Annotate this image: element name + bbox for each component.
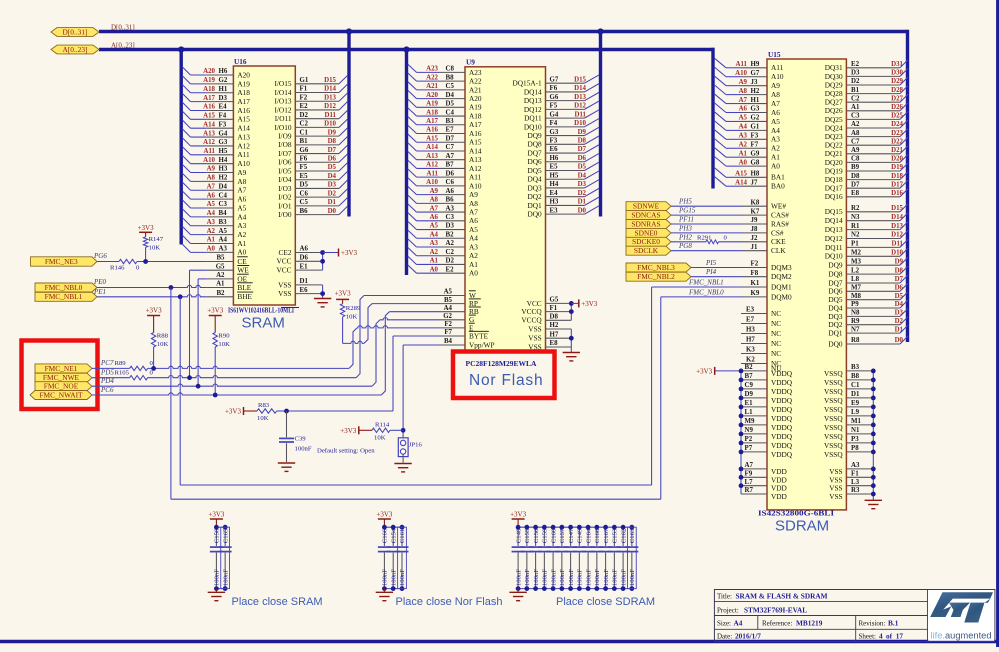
svg-text:D5: D5 (446, 101, 455, 108)
svg-text:B7: B7 (446, 162, 455, 169)
svg-text:C153: C153 (612, 528, 619, 543)
svg-text:Place close SDRAM: Place close SDRAM (556, 596, 655, 608)
svg-text:F5: F5 (300, 164, 308, 171)
svg-text:CKE: CKE (771, 237, 786, 246)
part number IS61WV102416BLL-10MLI (228, 306, 299, 315)
svg-text:A3: A3 (469, 242, 478, 251)
svg-text:G2: G2 (219, 77, 228, 84)
svg-text:C166: C166 (382, 528, 389, 543)
svg-text:R1: R1 (851, 223, 860, 230)
svg-text:D12: D12 (324, 103, 336, 110)
svg-text:100nF: 100nF (594, 569, 601, 586)
svg-text:A8: A8 (469, 199, 478, 208)
U15 left address pins A11..A0 (714, 58, 784, 171)
svg-text:P2: P2 (745, 436, 753, 443)
svg-text:A15: A15 (237, 115, 250, 124)
svg-text:A7: A7 (430, 205, 439, 212)
svg-text:DQ16: DQ16 (825, 192, 843, 201)
capacitor bank Nor Flash: C166,C154,C161 (378, 525, 409, 591)
svg-text:DQ3: DQ3 (527, 183, 542, 192)
svg-text:A0: A0 (739, 159, 748, 166)
svg-text:DQ14: DQ14 (825, 216, 843, 225)
svg-text:N7: N7 (851, 326, 860, 333)
svg-text:C1: C1 (851, 382, 860, 389)
svg-text:DQ0: DQ0 (527, 210, 542, 219)
svg-text:D8: D8 (550, 314, 559, 321)
svg-text:VDDQ: VDDQ (771, 387, 793, 396)
svg-text:A9: A9 (207, 166, 216, 173)
svg-text:A1: A1 (771, 153, 780, 162)
wire SDNWE to U15 (671, 205, 741, 207)
svg-text:C2: C2 (300, 121, 309, 128)
jumper JP16 (398, 438, 422, 463)
svg-text:100nF: 100nF (390, 569, 397, 586)
ground at SDRAM cap bank (509, 589, 526, 601)
U9 VSS pins with ground (528, 322, 573, 352)
svg-text:B4: B4 (219, 210, 228, 217)
U16 control pin stubs CE WE OE BLE BHE (207, 255, 253, 302)
svg-text:A7: A7 (237, 186, 246, 195)
svg-text:D3: D3 (328, 182, 337, 189)
svg-text:A14: A14 (735, 179, 747, 186)
svg-text:A21: A21 (469, 85, 482, 94)
svg-text:P7: P7 (745, 445, 753, 452)
svg-text:D3: D3 (578, 181, 587, 188)
svg-text:R289: R289 (346, 305, 361, 312)
title block table (714, 590, 995, 642)
svg-text:A23: A23 (469, 68, 482, 77)
bus vertical D to U9 (599, 32, 602, 217)
svg-text:A5: A5 (739, 115, 748, 122)
ground at U9 VSS (563, 353, 580, 361)
svg-text:D23: D23 (891, 130, 903, 137)
svg-text:C164: C164 (585, 528, 592, 543)
svg-text:A4: A4 (469, 234, 478, 243)
svg-text:FMC_NOE: FMC_NOE (44, 382, 79, 391)
svg-text:R147: R147 (149, 236, 164, 243)
svg-text:A8: A8 (237, 177, 246, 186)
svg-text:I/O1: I/O1 (278, 201, 292, 210)
svg-text:A7: A7 (207, 183, 216, 190)
svg-text:B2: B2 (446, 231, 455, 238)
svg-text:D1: D1 (300, 278, 309, 285)
svg-text:E8: E8 (550, 340, 559, 347)
svg-text:10K: 10K (346, 313, 358, 320)
svg-text:A5: A5 (469, 225, 478, 234)
svg-text:VDDQ: VDDQ (771, 423, 793, 432)
resistor R90 10K (213, 333, 230, 396)
svg-text:D0: D0 (328, 208, 337, 215)
svg-text:R88: R88 (157, 333, 169, 340)
svg-text:DQ7: DQ7 (527, 148, 542, 157)
wire SDNRAS to U15 (671, 223, 741, 225)
svg-text:L2: L2 (851, 267, 860, 274)
svg-text:E1: E1 (745, 400, 754, 407)
ground at U15 VSS (865, 500, 882, 508)
svg-text:C9: C9 (745, 382, 754, 389)
svg-text:IS61WV102416BLL-10MLI: IS61WV102416BLL-10MLI (228, 306, 294, 315)
wire FMC_NWE to U9 W (148, 296, 440, 381)
wire U16 WE vertical to FMC_NWE (190, 270, 207, 378)
svg-text:G7: G7 (751, 70, 760, 77)
svg-text:D4: D4 (219, 183, 228, 190)
svg-text:G8: G8 (751, 159, 760, 166)
svg-text:SDNRAS: SDNRAS (631, 219, 660, 228)
svg-text:D25: D25 (891, 113, 903, 120)
svg-text:100nF: 100nF (382, 569, 389, 586)
svg-text:D1: D1 (328, 199, 337, 206)
svg-text:VDDQ: VDDQ (771, 414, 793, 423)
svg-text:C154: C154 (390, 528, 397, 543)
resistor R88 10K (151, 333, 168, 369)
svg-text:DQM0: DQM0 (771, 292, 792, 301)
svg-text:FMC_NWAIT: FMC_NWAIT (39, 390, 83, 399)
U15 VDDQ/VDD pins (739, 364, 793, 501)
svg-text:PI5: PI5 (705, 259, 717, 267)
svg-text:A3: A3 (430, 240, 439, 247)
svg-text:C4: C4 (219, 192, 228, 199)
wire PE1 to U16 BHE (97, 294, 207, 299)
svg-text:A2: A2 (430, 249, 439, 256)
svg-text:+3V3: +3V3 (207, 306, 224, 314)
svg-text:A7: A7 (739, 97, 748, 104)
svg-text:A8: A8 (771, 90, 780, 99)
wire SDNE0 to U15 (671, 232, 741, 234)
svg-text:BHE: BHE (237, 292, 252, 301)
svg-text:D10: D10 (891, 250, 903, 257)
resistor R89 0 (92, 360, 154, 371)
svg-text:N1: N1 (851, 427, 860, 434)
svg-text:DQ8: DQ8 (828, 270, 843, 279)
svg-text:D17: D17 (891, 181, 903, 188)
svg-text:A9: A9 (237, 168, 246, 177)
svg-text:D3: D3 (851, 70, 860, 77)
svg-text:D2: D2 (446, 258, 455, 265)
svg-text:A6: A6 (237, 195, 246, 204)
svg-text:DQ14: DQ14 (524, 87, 542, 96)
svg-text:D1: D1 (578, 199, 587, 206)
svg-text:VDDQ: VDDQ (771, 405, 793, 414)
svg-text:C157: C157 (559, 528, 566, 543)
svg-text:R2: R2 (851, 205, 860, 212)
svg-text:F7: F7 (444, 329, 452, 336)
svg-text:D6: D6 (300, 255, 309, 262)
svg-text:100nF: 100nF (214, 569, 221, 586)
svg-text:+3V3: +3V3 (341, 249, 358, 257)
svg-text:D0: D0 (578, 207, 587, 214)
U15 right data pins DQ31..DQ16 (825, 60, 908, 201)
svg-text:A19: A19 (426, 101, 438, 108)
svg-text:A[0..23]: A[0..23] (62, 45, 87, 54)
svg-text:DQ13: DQ13 (524, 96, 542, 105)
svg-text:D7: D7 (895, 276, 904, 283)
svg-text:A7: A7 (745, 462, 754, 469)
svg-text:A4: A4 (237, 212, 246, 221)
svg-text:A20: A20 (203, 68, 215, 75)
svg-text:D7: D7 (446, 135, 455, 142)
svg-text:A17: A17 (469, 120, 482, 129)
svg-text:Revision:: Revision: (859, 620, 886, 628)
svg-text:D4: D4 (328, 173, 337, 180)
svg-text:N2: N2 (851, 232, 860, 239)
wire R146 to U16 CE (137, 259, 207, 264)
U15 BA1/BA0 pins A15 A14 (714, 167, 785, 190)
svg-text:+3V3: +3V3 (138, 224, 155, 232)
svg-text:NC: NC (771, 329, 781, 338)
svg-text:WE: WE (237, 266, 249, 275)
svg-text:D15: D15 (891, 205, 903, 212)
svg-text:D14: D14 (324, 86, 336, 93)
U9 right data pins DQ15A-1..DQ0 (513, 75, 599, 219)
wire U9 BYTE to R83 node (287, 336, 441, 411)
svg-text:C4: C4 (446, 109, 455, 116)
svg-text:F3: F3 (219, 121, 227, 128)
svg-text:DQ4: DQ4 (527, 175, 542, 184)
svg-text:+3V3: +3V3 (340, 427, 357, 435)
svg-text:DQ10: DQ10 (825, 252, 843, 261)
svg-text:BA1: BA1 (771, 173, 785, 182)
svg-text:B1: B1 (300, 138, 309, 145)
svg-text:VSSQ: VSSQ (824, 414, 843, 423)
svg-text:DQ5: DQ5 (527, 166, 542, 175)
svg-text:F2: F2 (300, 94, 308, 101)
U16 left address pins A20..A0 (wires+labels) (182, 67, 250, 257)
wire FMC_NBL2 to U15 DQM2 (691, 276, 741, 278)
svg-text:DQ6: DQ6 (527, 157, 542, 166)
bus vertical A to U9 (405, 50, 408, 276)
svg-text:H5: H5 (219, 148, 228, 155)
svg-text:A22: A22 (469, 77, 482, 86)
svg-text:I/O9: I/O9 (278, 132, 292, 141)
svg-text:D28: D28 (891, 87, 903, 94)
svg-text:A9: A9 (771, 81, 780, 90)
svg-text:M7: M7 (851, 285, 862, 292)
svg-text:H2: H2 (219, 175, 228, 182)
svg-text:100nF: 100nF (524, 569, 531, 586)
svg-text:H1: H1 (219, 86, 228, 93)
svg-text:H7: H7 (746, 337, 755, 344)
svg-text:F3: F3 (751, 133, 759, 140)
svg-text:+3V3: +3V3 (335, 289, 352, 297)
svg-text:A14: A14 (203, 121, 215, 128)
svg-text:PE0: PE0 (93, 278, 107, 286)
bus A[0..23] right vertical drop (U15) (711, 48, 714, 189)
svg-text:C159: C159 (542, 528, 549, 543)
port flag D[0..31] (51, 28, 99, 37)
svg-text:B3: B3 (851, 364, 860, 371)
svg-text:B5: B5 (216, 255, 225, 262)
norflash U9 body (465, 67, 546, 353)
svg-text:A11: A11 (736, 61, 748, 68)
svg-text:F2: F2 (444, 321, 452, 328)
svg-text:VSSQ: VSSQ (824, 369, 843, 378)
svg-text:D7: D7 (328, 147, 337, 154)
svg-text:DQ9: DQ9 (828, 261, 843, 270)
svg-text:10K: 10K (149, 244, 161, 251)
U15 right data pins DQ15..DQ8 (825, 204, 908, 279)
svg-text:C163: C163 (629, 528, 636, 543)
power +3V3 at U16 CE2 (339, 249, 358, 258)
svg-text:CAS#: CAS# (771, 211, 789, 220)
svg-text:100nF: 100nF (559, 569, 566, 586)
svg-text:A5: A5 (207, 201, 216, 208)
svg-text:SDCKE0: SDCKE0 (632, 237, 660, 246)
svg-text:CE: CE (237, 257, 247, 266)
svg-text:D19: D19 (891, 164, 903, 171)
svg-text:D11: D11 (575, 111, 587, 118)
power +3V3 at R83 (225, 407, 244, 416)
svg-text:E4: E4 (219, 104, 228, 111)
svg-text:NC: NC (771, 319, 781, 328)
wire SDCLK to U15 (671, 250, 741, 252)
svg-text:A9: A9 (430, 188, 439, 195)
svg-text:D8: D8 (895, 267, 904, 274)
svg-text:A18: A18 (469, 111, 482, 120)
svg-text:PF11: PF11 (678, 216, 694, 224)
svg-text:C156: C156 (533, 528, 540, 543)
svg-text:R291: R291 (697, 234, 712, 241)
wire SDNCAS to U15 (671, 214, 741, 216)
svg-text:C3: C3 (851, 113, 860, 120)
svg-text:VSS: VSS (278, 289, 291, 298)
svg-text:DQ11: DQ11 (825, 243, 843, 252)
svg-text:CE2: CE2 (279, 248, 292, 257)
svg-text:NC: NC (771, 349, 781, 358)
svg-text:DQ15: DQ15 (825, 207, 843, 216)
svg-text:A4: A4 (739, 124, 748, 131)
svg-text:A2: A2 (771, 144, 780, 153)
svg-text:I/O10: I/O10 (274, 123, 291, 132)
svg-text:E3: E3 (746, 307, 755, 314)
capacitor bank SDRAM: C148,C155,C156,C159,C160,C157,C147,C149,C164,C168,C167,C153,C162,C163 (512, 525, 639, 591)
svg-text:G3: G3 (219, 139, 228, 146)
port flag SDNE0 (626, 228, 671, 237)
svg-text:DQ15A-1: DQ15A-1 (513, 79, 543, 88)
svg-text:J7: J7 (751, 179, 758, 186)
port flag SDCLK (626, 246, 671, 255)
svg-text:A14: A14 (469, 146, 482, 155)
port flag FMC_NE3 (31, 257, 98, 266)
svg-text:A1: A1 (851, 104, 860, 111)
svg-text:VDD: VDD (771, 492, 787, 501)
svg-text:D18: D18 (891, 173, 903, 180)
svg-text:PC6: PC6 (100, 386, 114, 394)
svg-text:D9: D9 (328, 129, 337, 136)
port flag FMC_NWE (35, 373, 92, 382)
svg-text:VSSQ: VSSQ (824, 423, 843, 432)
svg-text:I/O6: I/O6 (278, 158, 292, 167)
svg-text:A13: A13 (426, 153, 438, 160)
svg-text:VSSQ: VSSQ (824, 378, 843, 387)
svg-text:I/O2: I/O2 (278, 193, 292, 202)
svg-text:R89: R89 (115, 360, 127, 367)
svg-text:D0: D0 (895, 337, 904, 344)
svg-text:+3V3: +3V3 (225, 408, 242, 416)
svg-text:A8: A8 (207, 175, 216, 182)
svg-text:H8: H8 (751, 171, 760, 178)
svg-text:D7: D7 (851, 181, 860, 188)
svg-text:E6: E6 (550, 146, 559, 153)
svg-text:G7: G7 (550, 76, 559, 83)
bus D[0..31] horizontal (99, 30, 908, 33)
svg-text:L3: L3 (851, 479, 860, 486)
svg-text:H2: H2 (751, 88, 760, 95)
svg-text:A10: A10 (469, 181, 482, 190)
U15 DQM3..DQM0 pins (741, 261, 792, 302)
svg-text:STM32F769I-EVAL: STM32F769I-EVAL (744, 606, 807, 615)
svg-text:+3V3: +3V3 (146, 306, 163, 314)
svg-text:A2: A2 (851, 121, 860, 128)
svg-text:A0: A0 (469, 269, 478, 278)
svg-text:A3: A3 (219, 246, 228, 253)
svg-text:M1: M1 (851, 418, 862, 425)
highlight red box around Nor Flash (453, 352, 555, 399)
svg-text:E5: E5 (550, 164, 559, 171)
svg-text:C1: C1 (300, 129, 309, 136)
svg-text:A13: A13 (203, 130, 215, 137)
svg-text:Default setting: Open: Default setting: Open (317, 448, 375, 455)
highlight red box around FMC_NE1 flags (22, 341, 98, 410)
svg-text:C6: C6 (300, 190, 309, 197)
svg-text:A6: A6 (207, 192, 216, 199)
svg-text:2016/1/7: 2016/1/7 (735, 632, 761, 641)
svg-text:VSS: VSS (829, 492, 842, 501)
bus junction dots (178, 28, 604, 52)
svg-text:H6: H6 (219, 68, 228, 75)
svg-text:A12: A12 (203, 139, 215, 146)
svg-text:J8: J8 (751, 226, 758, 233)
svg-text:B2: B2 (745, 364, 754, 371)
svg-text:A6: A6 (771, 108, 780, 117)
svg-text:K1: K1 (751, 280, 760, 287)
U15 NC pins (741, 307, 782, 374)
svg-text:H4: H4 (219, 157, 228, 164)
U9 VCC/VCCQ pins with +3V3 (521, 297, 578, 325)
svg-text:P9: P9 (851, 301, 859, 308)
svg-text:A11: A11 (237, 150, 250, 159)
port flag FMC_NBL2 (626, 272, 691, 281)
svg-text:A2: A2 (207, 228, 216, 235)
power +3V3 at R114 (340, 426, 359, 435)
svg-text:D14: D14 (891, 214, 903, 221)
svg-text:G4: G4 (550, 111, 559, 118)
svg-text:A23: A23 (426, 66, 438, 73)
svg-text:A3: A3 (446, 205, 455, 212)
svg-text:life.augmented: life.augmented (931, 630, 992, 640)
svg-text:PG6: PG6 (93, 252, 107, 260)
svg-text:C2: C2 (446, 249, 455, 256)
port flag FMC_NBL0 (35, 283, 97, 292)
svg-text:A11: A11 (469, 173, 482, 182)
svg-text:VDDQ: VDDQ (771, 450, 793, 459)
svg-text:F1: F1 (300, 86, 308, 93)
svg-text:C148: C148 (515, 528, 522, 543)
svg-text:A11: A11 (427, 170, 439, 177)
svg-text:R9: R9 (851, 318, 860, 325)
svg-text:B9: B9 (851, 164, 860, 171)
svg-text:F8: F8 (751, 270, 759, 277)
svg-text:A1: A1 (237, 239, 246, 248)
svg-text:G6: G6 (550, 94, 559, 101)
svg-text:100nF: 100nF (295, 446, 312, 453)
svg-text:C6: C6 (446, 179, 455, 186)
svg-text:+3V3: +3V3 (581, 300, 598, 308)
svg-text:U9: U9 (466, 58, 475, 67)
svg-text:C167: C167 (603, 528, 610, 543)
svg-text:DQ2: DQ2 (527, 192, 542, 201)
svg-text:10K: 10K (257, 415, 269, 422)
svg-text:FMC_NBL2: FMC_NBL2 (637, 272, 675, 281)
